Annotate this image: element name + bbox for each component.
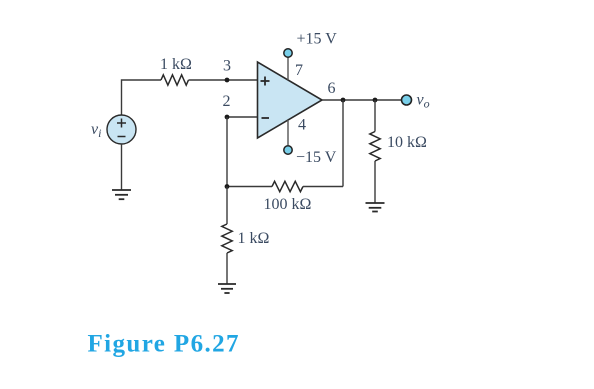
-15V supply terminal [284, 146, 292, 154]
svg-text:−15 V: −15 V [296, 149, 337, 166]
output terminal vo [402, 95, 412, 105]
node: output junction (load) [373, 98, 378, 103]
resistor R2 100 kOhm (feedback) [272, 181, 303, 191]
+15V supply terminal [284, 49, 292, 57]
svg-text:7: 7 [295, 62, 303, 79]
svg-text:2: 2 [223, 93, 231, 110]
ground (load) [366, 203, 385, 212]
ground (bottom) [218, 284, 236, 293]
node: output junction (feedback) [341, 98, 346, 103]
voltage source vi [107, 115, 136, 144]
pin 7 wire [287, 58, 289, 81]
svg-text:4: 4 [298, 117, 306, 134]
wire: feedback row left [227, 186, 272, 188]
svg-text:3: 3 [223, 58, 231, 75]
svg-text:10 kΩ: 10 kΩ [387, 134, 427, 151]
wire: inverting node down to feedback row [226, 117, 228, 187]
node 3 junction dot [225, 78, 230, 83]
resistor R1 1 kOhm (input) [161, 75, 189, 85]
node 2 junction dot [225, 115, 230, 120]
wire: feedback right vertical [342, 100, 344, 187]
wire: output (pin 6) [322, 99, 402, 101]
wire: source to input resistor (top-left corner) [122, 80, 162, 115]
wire: op-amp - input [227, 116, 258, 118]
wire: junction down to bottom resistor [226, 187, 228, 225]
pin 4 wire [287, 120, 289, 145]
wire: load resistor to ground [374, 161, 376, 203]
resistor R3 1 kOhm (bottom) [222, 224, 232, 253]
svg-text:1 kΩ: 1 kΩ [238, 230, 270, 247]
ground (source) [112, 190, 131, 199]
svg-text:+15 V: +15 V [297, 31, 338, 48]
wire: bottom resistor to ground [226, 253, 228, 284]
op-amp U1 [258, 62, 323, 138]
wire: load branch top [374, 100, 376, 132]
wire: feedback row right [303, 186, 343, 188]
svg-text:100 kΩ: 100 kΩ [264, 196, 312, 213]
svg-text:1 kΩ: 1 kΩ [160, 56, 192, 73]
node: feedback/ground junction dot [225, 184, 230, 189]
resistor R4 10 kOhm (load) [370, 132, 380, 162]
wire: resistor to op-amp + input [189, 79, 258, 81]
wire: source to ground [121, 144, 123, 190]
svg-text:Figure P6.27: Figure P6.27 [88, 331, 240, 358]
svg-text:6: 6 [328, 80, 336, 97]
